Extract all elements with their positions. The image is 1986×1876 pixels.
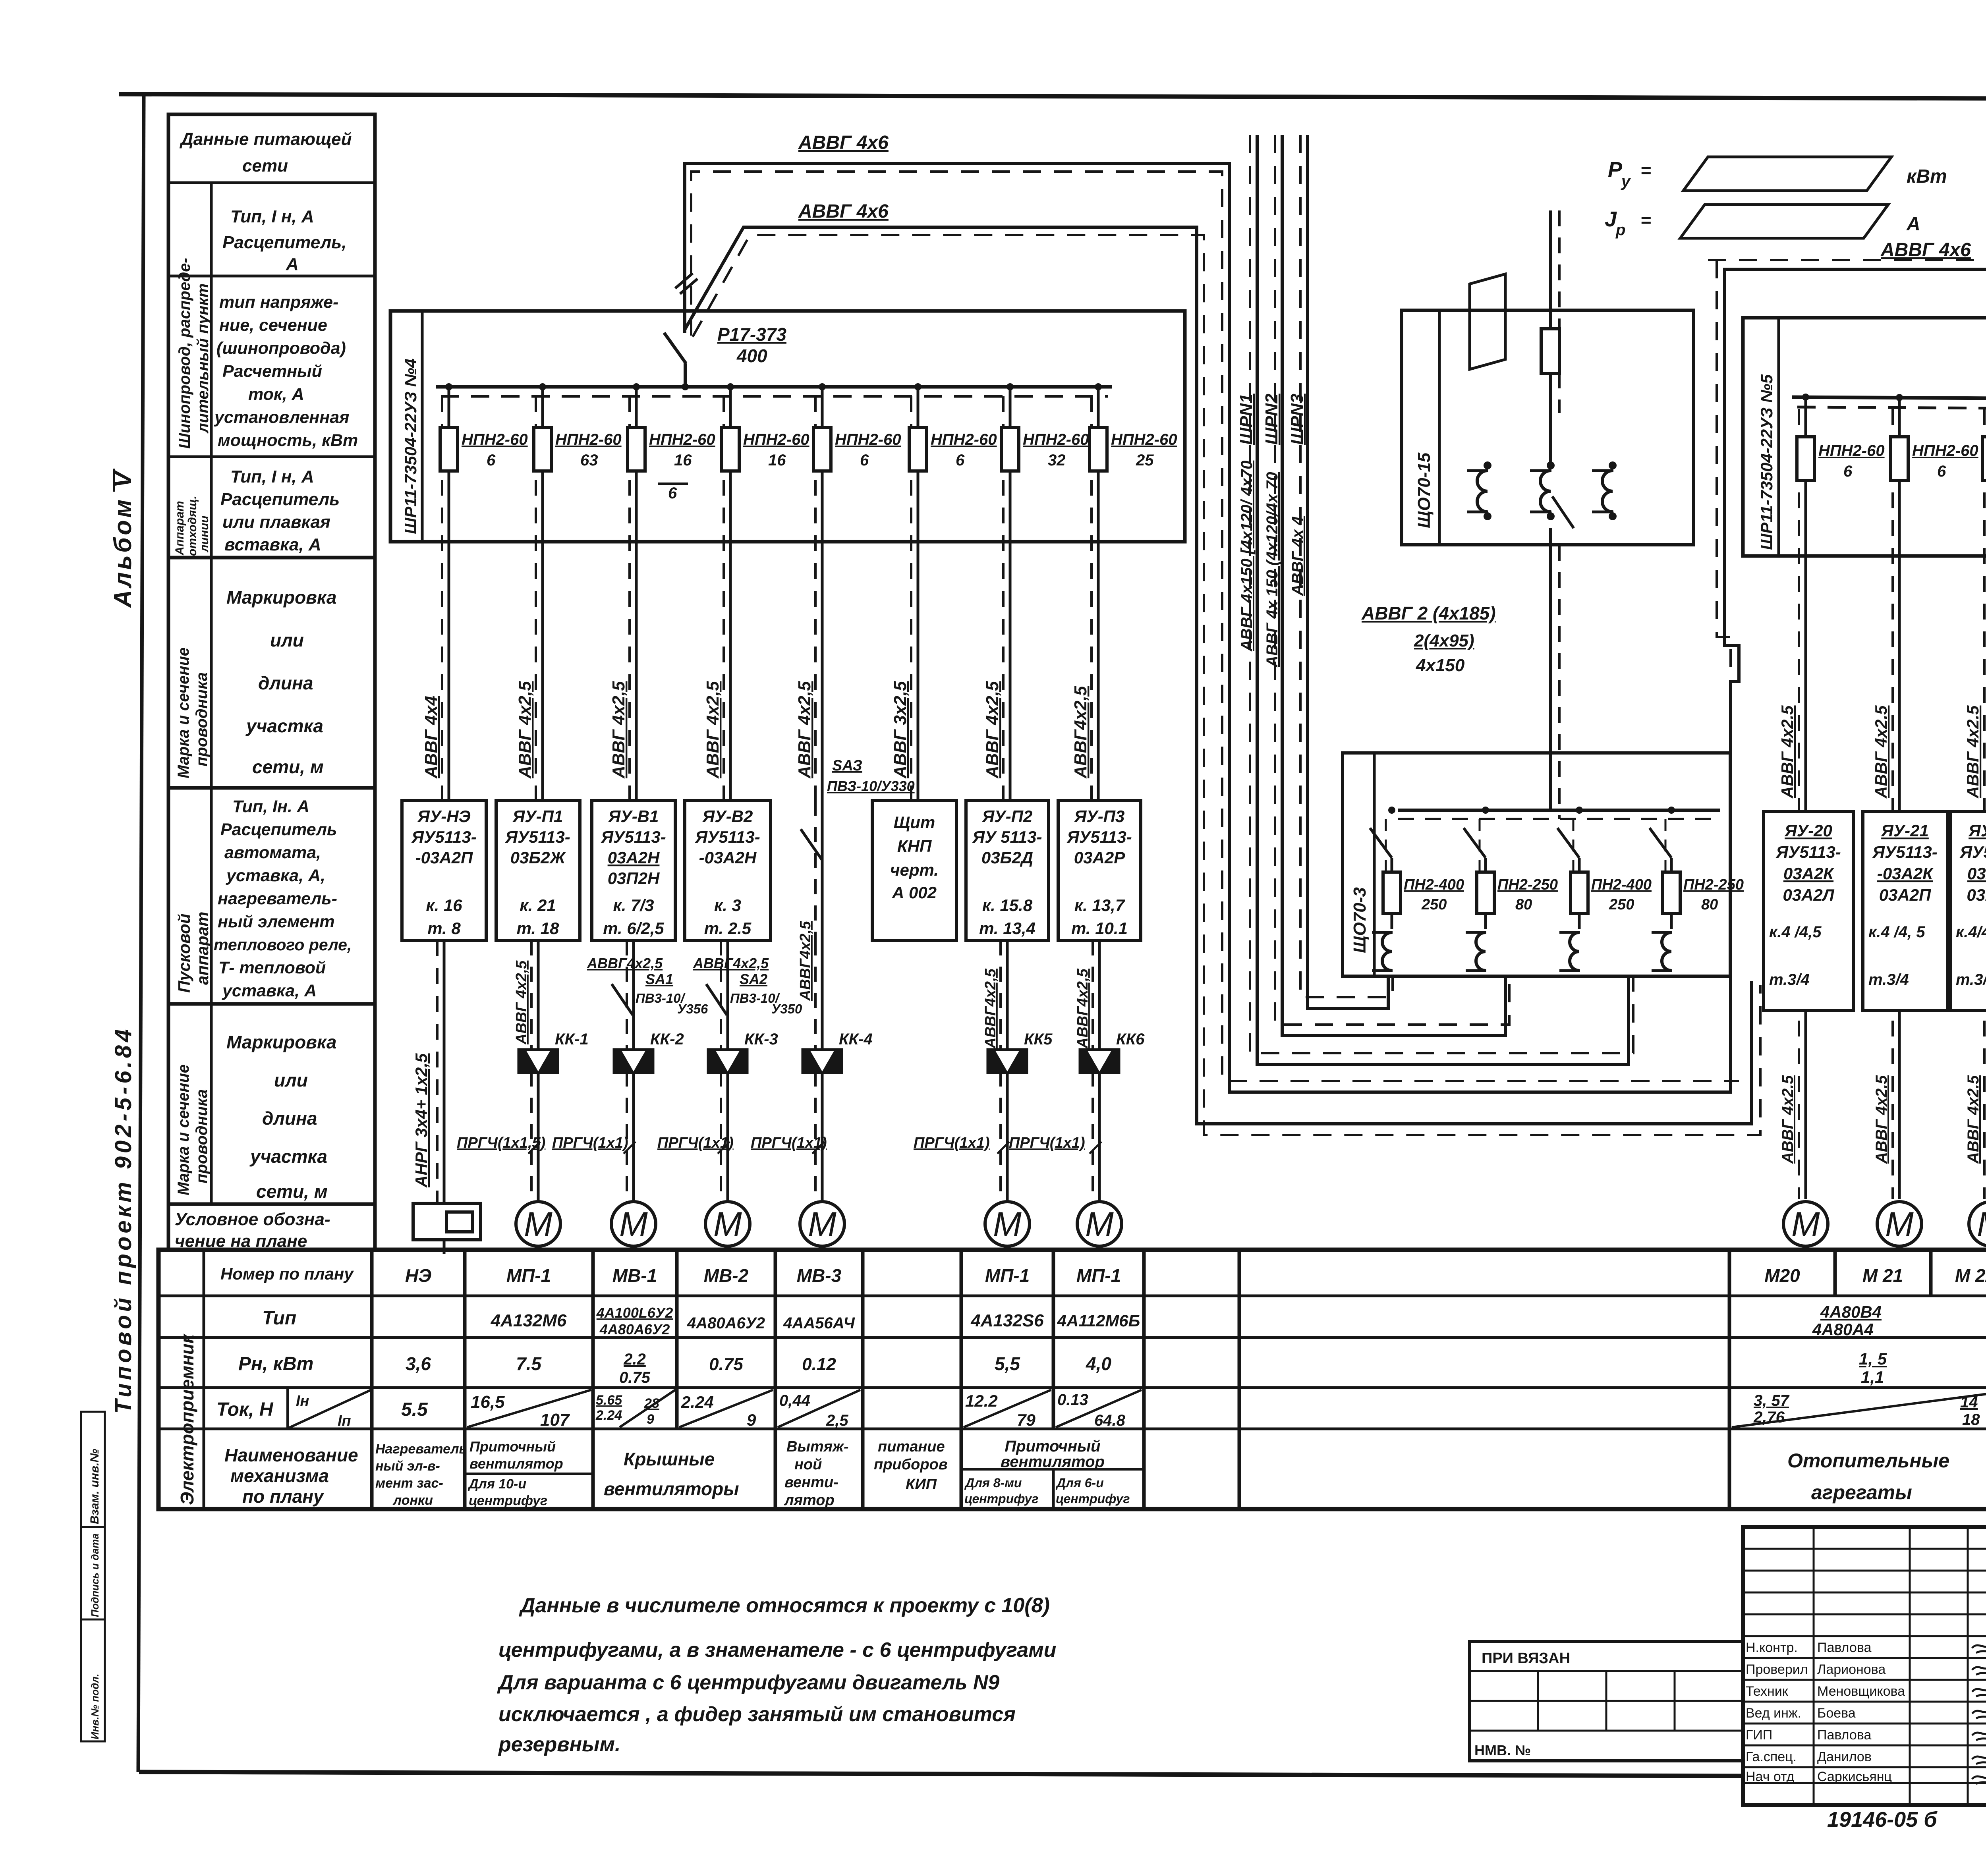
svg-text:МП-1: МП-1 [1076,1265,1121,1286]
svg-text:107: 107 [540,1410,570,1430]
svg-text:АВВГ4х2,5: АВВГ4х2,5 [587,955,663,971]
svg-text:4А132S6: 4А132S6 [970,1311,1044,1330]
wire label ПРГЧ(1х1) [751,1135,827,1154]
legend Jр= parallelogram А [1605,205,1920,239]
left busbar [436,387,1112,396]
table row: Tip values [491,1303,1882,1339]
header row6 text [214,797,352,1000]
svg-text:ЯУ-П3: ЯУ-П3 [1074,807,1125,826]
svg-text:мент зас-: мент зас- [375,1476,443,1491]
svg-text:черт.: черт. [890,861,939,879]
svg-text:АВВГ 4х2,5: АВВГ 4х2,5 [795,681,814,779]
svg-text:уставка, А,: уставка, А, [226,866,325,885]
svg-text:т. 10.1: т. 10.1 [1071,919,1128,938]
wire label ПРГЧ(1х1) [1009,1135,1101,1154]
title block [1743,1527,1986,1805]
svg-text:(шинопровода): (шинопровода) [216,339,346,358]
fuse FP1 right bus НПН2-60/6 [1797,394,1885,1199]
cable АВВГ4х6 run2 [685,227,1760,1135]
svg-text:ЯУ5113-: ЯУ5113- [695,828,760,846]
svg-text:4А112М6Б: 4А112М6Б [1057,1311,1140,1330]
svg-text:4А80А6У2: 4А80А6У2 [687,1314,765,1332]
svg-text:ПРИ ВЯЗАН: ПРИ ВЯЗАН [1482,1650,1570,1667]
svg-text:М: М [1977,1205,1986,1243]
svg-text:установленная: установленная [214,408,349,427]
title block signature labels [1746,1640,1905,1784]
fuse FU1 left bus НПН2-60/6 [440,383,528,801]
svg-text:АВВГ 4х2.5: АВВГ 4х2.5 [1873,1075,1890,1164]
svg-text:5.5: 5.5 [401,1399,428,1420]
svg-text:к. 7/3: к. 7/3 [613,896,654,915]
svg-text:по плану: по плану [242,1486,325,1507]
fuse FU2 left bus НПН2-60/63 [534,383,622,801]
svg-text:А: А [286,255,299,274]
svg-text:Ларионова: Ларионова [1817,1662,1886,1677]
svg-text:4,0: 4,0 [1086,1353,1111,1374]
svg-text:Типовой проект 902-5-6.84: Типовой проект 902-5-6.84 [110,1026,136,1414]
cable riser ШРN2 [1275,135,1509,1036]
label АВВГ 4х6 run2 [798,201,889,222]
svg-text:или: или [270,630,304,650]
svg-text:32: 32 [1048,452,1066,469]
header row4 label rotated: apparat otkhod [173,496,211,556]
svg-text:сети, м: сети, м [252,757,324,777]
label riser ШРN3 [1287,394,1307,596]
thermal relay КК-4 [802,1031,873,1074]
svg-text:250: 250 [1609,896,1634,913]
wire feeder to КК-2 [627,940,634,1202]
svg-text:ный элемент: ный элемент [218,912,335,931]
svg-text:Расцепитель: Расцепитель [220,820,337,839]
svg-text:АВВГ 4х 150 (4х120/4х 70: АВВГ 4х 150 (4х120/4х 70 [1263,472,1281,668]
svg-text:к. 21: к. 21 [520,896,556,915]
svg-text:Условное обозна-: Условное обозна- [175,1210,330,1229]
svg-text:А 002: А 002 [892,883,937,902]
svg-text:венти-: венти- [784,1474,838,1491]
svg-text:Щит: Щит [894,813,935,832]
svg-text:ЯУ5113-: ЯУ5113- [601,828,666,846]
starter box ЯУ-П2 [966,801,1049,940]
starter box ЯУ-22 [1950,812,1986,1011]
svg-text:АВВГ 4х 4: АВВГ 4х 4 [1289,516,1306,596]
svg-text:АВВГ4х2,5: АВВГ4х2,5 [797,921,814,1001]
label АВВГ 4х6 run1 [798,132,889,153]
fuse FU8 left bus НПН2-60/25 [1090,383,1177,801]
svg-text:Для 6-и: Для 6-и [1055,1476,1104,1490]
svg-text:МВ-3: МВ-3 [797,1265,842,1286]
svg-text:Шинопровод, распреде-: Шинопровод, распреде- [176,258,193,449]
svg-text:АВВГ 3х2,5: АВВГ 3х2,5 [891,681,910,779]
svg-text:Н.контр.: Н.контр. [1746,1640,1798,1655]
svg-text:ЩО70-3: ЩО70-3 [1350,887,1370,953]
svg-text:ЯУ-НЭ: ЯУ-НЭ [417,807,471,826]
wire b5 continuation through SA3 [815,801,822,940]
motor M for КК-4 [800,1202,844,1246]
svg-text:проводника: проводника [193,1089,211,1183]
starter box ЯУ-В2 [685,801,771,940]
svg-text:-03А2Н: -03А2Н [699,848,757,867]
svg-text:Маркировка: Маркировка [226,587,336,608]
fuse FU5 left bus НПН2-60/6 [813,383,901,801]
branch ПН2-400/250 in ЩО70-3 [1557,807,1652,971]
svg-text:16,5: 16,5 [471,1392,505,1412]
svg-text:т.3/4: т.3/4 [1868,971,1909,988]
motor М20 [1783,1202,1828,1246]
svg-text:18: 18 [1962,1411,1980,1428]
svg-text:А: А [1906,214,1920,235]
left bus cabinet SHR11 N4 [390,311,1185,542]
svg-text:к.4/4,5: к.4/4,5 [1956,923,1986,941]
svg-text:03Б2Ж: 03Б2Ж [510,848,566,867]
svg-text:4х150: 4х150 [1416,656,1465,675]
margin text Tipovoy proekt [110,1026,136,1414]
svg-text:4А100L6У2: 4А100L6У2 [596,1305,673,1321]
svg-text:АВВГ 4х2.5: АВВГ 4х2.5 [1965,1075,1982,1164]
svg-text:резервным.: резервным. [498,1733,620,1756]
svg-text:длина: длина [262,1108,317,1129]
svg-text:Рн, кВт: Рн, кВт [238,1353,313,1374]
svg-text:12.2: 12.2 [965,1392,998,1410]
svg-text:т.3/ 4: т.3/ 4 [1956,971,1986,988]
wire label АВВГ 4х2,5 [1963,705,1982,799]
wire feeder to КК5 [1001,940,1007,1202]
margin text Album V [109,469,137,608]
svg-text:Наименование: Наименование [224,1445,358,1465]
wire label АВВГ 4х4 feeder 1 [421,696,441,779]
svg-text:ПН2-250: ПН2-250 [1683,876,1744,893]
svg-text:М: М [808,1205,837,1243]
svg-text:длина: длина [258,673,313,693]
svg-text:16: 16 [674,452,692,469]
svg-text:сети, м: сети, м [256,1181,328,1202]
svg-text:У350: У350 [771,1002,802,1016]
fuse FP3 right bus НПН2-60/6 [1982,394,1986,1199]
svg-text:Ток, Н: Ток, Н [216,1399,274,1420]
table row: naimenovanie values [375,1438,1986,1509]
svg-text:участка: участка [245,716,323,736]
motor М21 [1877,1202,1922,1246]
svg-text:0.75: 0.75 [619,1369,651,1386]
svg-text:АВВГ 4х6: АВВГ 4х6 [798,201,889,222]
svg-text:АВВГ 4х6: АВВГ 4х6 [1880,239,1971,261]
switch blade in ЩО70-15 [1552,496,1574,528]
switch SA1 ПВ3-10/У356 [612,971,708,1016]
wire label АВВГ4х2,5 under ЯУ-В2 [693,955,769,971]
svg-text:Проверил: Проверил [1746,1662,1808,1677]
svg-text:механизма: механизма [230,1465,329,1486]
svg-text:АВВГ 4х2,5: АВВГ 4х2,5 [515,681,535,779]
legend Ру= parallelogram кВт [1608,157,1947,191]
svg-text:проводника: проводника [193,672,211,766]
frame left border [138,94,144,1772]
svg-text:вставка, А: вставка, А [224,535,321,554]
svg-text:ШРN3: ШРN3 [1287,394,1307,445]
svg-text:0.75: 0.75 [709,1355,743,1374]
svg-text:6: 6 [1843,463,1853,480]
svg-text:АВВГ 4х2.5: АВВГ 4х2.5 [1779,1075,1797,1164]
margin stamp box column [81,1412,105,1741]
wire label АВВГ 4х2,5 feeder 2 [515,681,535,779]
svg-text:03А2Н: 03А2Н [608,848,660,867]
svg-text:64.8: 64.8 [1094,1412,1126,1429]
svg-text:03П2Н: 03П2Н [608,869,660,888]
svg-text:АВВГ 4х2,5: АВВГ 4х2,5 [983,681,1002,779]
starter box ЯУ-П3 [1058,801,1141,940]
svg-text:АВВГ 4х2.5: АВВГ 4х2.5 [1872,705,1890,799]
wire label АВВГ4х2,5 under ЯУ-П2 [982,968,999,1049]
svg-text:к. 16: к. 16 [426,896,462,915]
svg-text:ЯУ5113-: ЯУ5113- [1872,843,1937,861]
svg-text:НПН2-60: НПН2-60 [931,431,997,448]
wire label АВВГ 4х2,5 feeder 7 [983,681,1002,779]
table row: Nomer po planu values [405,1265,1986,1286]
frame top border [119,94,1986,100]
svg-text:ШРN1: ШРN1 [1236,394,1256,445]
svg-text:АВВГ4х2,5: АВВГ4х2,5 [982,968,999,1049]
starter box ЯУ-В1 [592,801,675,940]
header row2 label rotated: shinoprovod [176,258,212,449]
wire feeder to КК-4 [815,940,822,1202]
fuse FU7 left bus НПН2-60/32 [1001,383,1089,801]
svg-text:уставка, А: уставка, А [222,981,317,1000]
svg-text:ЯУ-В2: ЯУ-В2 [702,807,753,826]
svg-text:к. 15.8: к. 15.8 [982,896,1033,915]
svg-text:к.4 /4,5: к.4 /4,5 [1769,923,1822,941]
svg-text:Меновщикова: Меновщикова [1817,1684,1905,1699]
svg-text:4АА56АЧ: 4АА56АЧ [783,1314,855,1332]
wire label АВВГ 3х2,5 feeder 6 [891,681,910,779]
svg-text:6: 6 [956,452,965,469]
svg-text:ние, сечение: ние, сечение [219,316,327,335]
svg-text:М: М [713,1205,742,1243]
svg-text:Приточный: Приточный [1005,1438,1100,1455]
svg-text:сети: сети [242,156,288,176]
svg-text:линии: линии [198,515,211,553]
starter box ЯУ-НЭ [402,801,486,940]
svg-text:к. 3: к. 3 [714,896,741,915]
svg-text:Тип: Тип [262,1308,296,1329]
svg-text:М 21: М 21 [1862,1265,1903,1286]
svg-text:6: 6 [860,452,869,469]
svg-text:вентиляторы: вентиляторы [604,1478,739,1499]
wire label ПРГЧ(1х1) [657,1135,734,1154]
wire label АНРГ 3х4+1х2,5 [412,1053,431,1188]
svg-text:ЯУ-П1: ЯУ-П1 [512,807,563,826]
svg-text:Тип, I н, А: Тип, I н, А [230,467,314,486]
svg-text:Данные в числителе относятс: Данные в числителе относятся к проекту с… [519,1594,1050,1617]
svg-text:03А2П: 03А2П [1879,886,1931,904]
svg-text:АВВГ 2 (4х185): АВВГ 2 (4х185) [1361,603,1496,623]
svg-text:63: 63 [580,452,598,469]
heater element НЭ symbol [413,1203,481,1254]
svg-text:28: 28 [644,1396,659,1411]
svg-text:Нач отд: Нач отд [1746,1769,1794,1784]
svg-text:1,1: 1,1 [1861,1368,1884,1386]
svg-text:исключается , а фидер занят: исключается , а фидер занятый им станови… [498,1703,1016,1726]
wire label ПРГЧ(1х1,5) [457,1135,545,1154]
svg-text:03Б2Д: 03Б2Д [981,848,1033,867]
svg-text:ЯУ-22: ЯУ-22 [1968,821,1986,840]
starter box ЯУ-20 [1764,812,1853,1011]
svg-text:Для 8-ми: Для 8-ми [964,1476,1022,1490]
svg-text:79: 79 [1017,1411,1036,1429]
svg-text:лительный пункт: лительный пункт [194,284,212,434]
svg-text:250: 250 [1421,896,1447,913]
svg-text:Отопительные: Отопительные [1787,1449,1949,1472]
svg-text:ток, А: ток, А [248,385,304,404]
wire label ПРГЧ(1х1) [914,1135,1009,1154]
cabinet ЩО70-15 [1402,310,1694,545]
svg-text:лонки: лонки [392,1493,433,1508]
svg-text:МП-1: МП-1 [506,1265,551,1286]
svg-text:т. 8: т. 8 [427,919,461,938]
header row7 label rotated [175,1064,211,1195]
svg-text:ЯУ 5113-: ЯУ 5113- [972,828,1042,846]
svg-text:ПРГЧ(1х1): ПРГЧ(1х1) [914,1135,990,1151]
svg-text:03А2К: 03А2К [1967,864,1986,883]
wire label АВВГ 4х2,5 to М22 [1965,1075,1982,1164]
svg-text:НПН2-60: НПН2-60 [1023,431,1089,448]
table row: Tok values with diagonals [401,1390,1986,1430]
svg-text:-03А2К: -03А2К [1877,864,1934,883]
svg-text:НМВ. №: НМВ. № [1474,1742,1531,1758]
svg-text:Маркировка: Маркировка [226,1032,336,1052]
svg-text:03А2Л: 03А2Л [1783,886,1834,904]
svg-text:вентилятор: вентилятор [1001,1453,1105,1471]
svg-text:вентилятор: вентилятор [469,1455,563,1472]
svg-text:Техник: Техник [1746,1684,1789,1699]
svg-text:ЯУ5113-: ЯУ5113- [1775,843,1841,861]
svg-text:Для 10-и: Для 10-и [468,1476,526,1492]
svg-text:ПН2-400: ПН2-400 [1404,876,1464,893]
busbar ЩО70-3 [1398,810,1720,819]
svg-text:АВВГ 4х2,5: АВВГ 4х2,5 [609,681,628,779]
thermal relay КК-1 [518,1031,589,1074]
svg-text:SA1: SA1 [645,971,673,987]
cable riser ШРN3 [1300,135,1393,1008]
svg-text:М: М [1085,1205,1114,1243]
switch SA2 ПВ3-10/У350 [706,971,802,1016]
svg-text:ЯУ5113-: ЯУ5113- [411,828,476,846]
wire label ПРГЧ(1х1) [552,1135,636,1154]
svg-text:Боева: Боева [1817,1706,1856,1721]
header row5 text [226,587,336,777]
svg-text:14: 14 [1960,1393,1978,1411]
svg-text:6: 6 [487,452,496,469]
motor М22 [1969,1202,1986,1246]
svg-text:ЯУ5113-: ЯУ5113- [505,828,570,846]
svg-text:ПВЗ-10/У330: ПВЗ-10/У330 [827,778,915,794]
motor M for КК5 [985,1202,1030,1246]
svg-text:Данилов: Данилов [1817,1749,1872,1764]
svg-text:ПРГЧ(1х1): ПРГЧ(1х1) [751,1135,827,1151]
svg-text:3, 57: 3, 57 [1754,1392,1790,1409]
branch ПН2-250/80 in ЩО70-3 [1464,807,1558,971]
svg-text:АНРГ 3х4+ 1х2,5: АНРГ 3х4+ 1х2,5 [412,1053,431,1188]
transformer coils in ЩО70-15 [1467,461,1617,520]
right bus cabinet ШР11-73504-22УЗ №5 [1743,318,1986,556]
svg-text:SA2: SA2 [740,971,767,987]
wire label АВВГ4х2,5 under ЯУ-П3 [1074,968,1091,1049]
wire into ЩО70-15 [1551,210,1559,413]
svg-text:2,76: 2,76 [1753,1409,1785,1426]
svg-text:КК-2: КК-2 [650,1031,684,1048]
svg-text:80: 80 [1515,896,1532,913]
svg-text:ный эл-в-: ный эл-в- [375,1459,440,1474]
svg-text:КК6: КК6 [1116,1031,1145,1048]
svg-text:Марка и сечение: Марка и сечение [175,647,192,778]
svg-text:ШР11-73504-22УЗ №5: ШР11-73504-22УЗ №5 [1757,374,1776,550]
table label col rotated: Electropriemnik [177,1333,197,1505]
header row5 label rotated: marka i sechenie [175,647,211,778]
svg-text:АВВГ 4х6: АВВГ 4х6 [798,132,889,153]
cable riser ШРN1 [1250,135,1633,1064]
svg-text:агрегаты: агрегаты [1811,1481,1912,1504]
svg-text:03А2Л: 03А2Л [1967,886,1986,904]
svg-text:М: М [619,1205,648,1243]
svg-text:Вытяж-: Вытяж- [786,1438,849,1455]
fuse FU3 left bus НПН2-60/16 [628,383,715,801]
svg-text:питание: питание [878,1438,945,1455]
svg-text:=: = [1640,160,1651,181]
svg-text:Павлова: Павлова [1817,1727,1871,1743]
svg-text:отходящ.: отходящ. [186,496,199,556]
wire label АВВГ4х2,5 below SA3 [797,921,814,1001]
thermal relay КК6 [1079,1031,1145,1074]
svg-text:Номер по плану: Номер по плану [220,1264,354,1283]
svg-text:ЯУ5113-: ЯУ5113- [1066,828,1132,846]
fuse FU6 left bus НПН2-60/6 [909,383,997,801]
header row8 text uslovnoe [175,1210,330,1251]
svg-text:Вед инж.: Вед инж. [1746,1706,1801,1721]
svg-text:центрифуг: центрифуг [1056,1492,1130,1506]
fuse in ЩО70-15 [1541,329,1559,463]
label АВВГ 2(4х185) [1361,603,1496,675]
svg-text:Аппарат: Аппарат [173,501,186,556]
header row7 text [226,1032,336,1202]
svg-text:7.5: 7.5 [516,1353,542,1374]
table row labels [216,1264,371,1507]
svg-text:ПРГЧ(1х1): ПРГЧ(1х1) [1009,1135,1085,1151]
svg-text:или: или [274,1070,308,1090]
thermal relay КК-2 [613,1031,684,1074]
label riser ШРN2 [1262,394,1281,668]
svg-text:у: у [1621,173,1631,190]
wire label АВВГ 4х2,5 feeder 3 [609,681,628,779]
svg-text:КНП: КНП [897,837,932,855]
svg-text:АВВГ 4х2,5: АВВГ 4х2,5 [703,681,723,779]
svg-text:9: 9 [647,1412,654,1427]
svg-text:мощность, кВт: мощность, кВт [218,431,358,450]
svg-text:Пусковой: Пусковой [175,914,193,993]
switch SA3 ПВ3-10/У330 [801,757,915,860]
svg-text:4А80А6У2: 4А80А6У2 [599,1321,670,1338]
svg-text:Данные питающей: Данные питающей [179,129,352,149]
wire feeder to КК6 [1093,940,1099,1202]
starter box ЯУ-21 [1863,812,1947,1011]
svg-text:0.13: 0.13 [1057,1391,1088,1409]
svg-text:приборов: приборов [874,1456,948,1473]
wire label АВВГ 4х2,5 [1778,705,1797,799]
cable АВВГ4х6 run1 [685,164,1986,1092]
wire feeder to КК-1 [531,940,538,1202]
svg-text:М: М [993,1205,1022,1243]
svg-text:КК-1: КК-1 [555,1031,589,1048]
svg-text:КК5: КК5 [1024,1031,1053,1048]
motor M for КК-2 [611,1202,656,1246]
branch ПН2-250/80 in ЩО70-3 [1650,807,1744,971]
wire label АВВГ 4х2,5 to М21 [1873,1075,1890,1164]
